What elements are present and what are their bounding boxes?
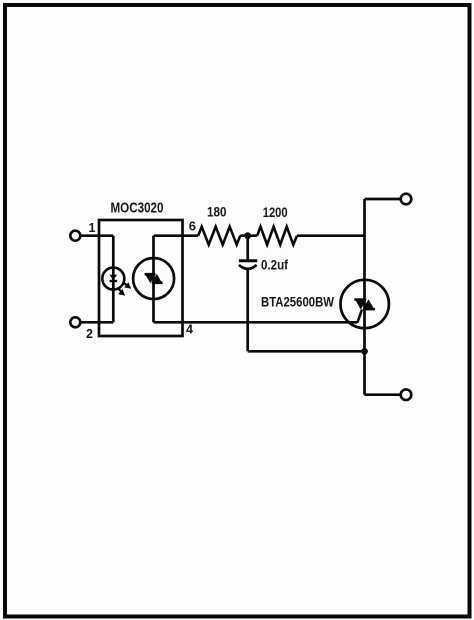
LED D1 circle bbox=[102, 268, 124, 290]
wire pin4 to gate bbox=[154, 321, 358, 324]
terminal 1 bbox=[70, 231, 80, 241]
node B junction dot bbox=[361, 348, 368, 355]
svg-text:180: 180 bbox=[207, 204, 227, 220]
svg-text:1200: 1200 bbox=[263, 204, 288, 220]
LED emission arrow a bbox=[123, 282, 131, 289]
capacitor C1 top plate bbox=[239, 259, 257, 262]
wire C1 return to MT1 bbox=[248, 350, 365, 353]
wire pin6 bbox=[154, 234, 199, 237]
wire LED branch vertical bbox=[112, 236, 115, 323]
wire R2 to triac MT2 line bbox=[297, 234, 365, 237]
triac Q1 main vertical wire bbox=[363, 199, 366, 395]
svg-text:0.2uf: 0.2uf bbox=[261, 258, 288, 273]
svg-text:1: 1 bbox=[89, 221, 96, 235]
wire C1 bottom stem bbox=[246, 269, 249, 352]
wire gate diagonal bbox=[357, 310, 362, 323]
wire pin2 bbox=[80, 321, 113, 324]
terminal MT1 bbox=[401, 389, 412, 400]
svg-text:6: 6 bbox=[189, 219, 196, 234]
photo-triac symbol bbox=[145, 274, 163, 283]
optocoupler U1 MOC3020 body bbox=[99, 220, 183, 336]
terminal MT2 bbox=[401, 194, 412, 205]
svg-text:4: 4 bbox=[186, 323, 193, 337]
node A junction dot bbox=[244, 232, 251, 239]
svg-text:BTA25600BW: BTA25600BW bbox=[261, 294, 335, 310]
triac Q1 symbol bbox=[354, 299, 375, 309]
photo-triac circle bbox=[133, 258, 174, 299]
capacitor C1 stem top bbox=[246, 236, 249, 261]
triac Q1 circle bbox=[341, 280, 389, 328]
wire photo-triac branch vertical bbox=[152, 236, 155, 323]
resistor R1 180 bbox=[198, 227, 240, 245]
resistor R2 1200 bbox=[257, 227, 297, 245]
svg-text:MOC3020: MOC3020 bbox=[111, 200, 164, 217]
terminal 2 bbox=[70, 317, 80, 327]
wire MT2 top bbox=[365, 198, 401, 201]
LED D1 diode mark bbox=[110, 275, 118, 281]
wire pin1 bbox=[80, 234, 113, 237]
LED emission arrow b bbox=[118, 288, 125, 296]
capacitor C1 curved plate bbox=[239, 265, 257, 269]
wire MT1 bottom bbox=[365, 393, 401, 396]
svg-text:2: 2 bbox=[86, 327, 93, 341]
wire R1 to node A bbox=[240, 234, 257, 237]
